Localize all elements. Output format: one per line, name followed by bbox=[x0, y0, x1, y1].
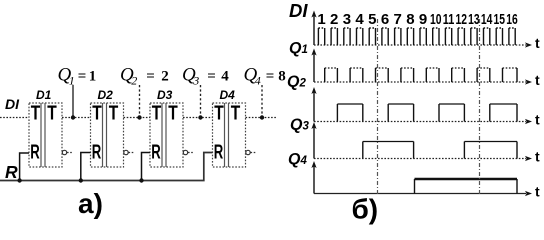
svg-text:t: t bbox=[535, 184, 540, 200]
flip-flop D4 (T flip-flop) bbox=[213, 88, 246, 167]
svg-text:T: T bbox=[168, 103, 178, 125]
time axis for DI bbox=[311, 11, 540, 52]
svg-text:12: 12 bbox=[455, 11, 467, 28]
svg-text:Q1: Q1 bbox=[289, 40, 308, 57]
svg-text:Q4: Q4 bbox=[288, 151, 307, 168]
svg-text:15: 15 bbox=[494, 11, 506, 28]
svg-text:DI: DI bbox=[5, 96, 20, 112]
svg-text:T: T bbox=[231, 103, 241, 125]
time axis for Q3 bbox=[311, 122, 540, 165]
D1 inverted output stub bbox=[67, 152, 73, 154]
flip-flop D3 (T flip-flop) bbox=[150, 88, 183, 167]
Q4 waveform pulse bbox=[414, 179, 416, 194]
svg-text:8: 8 bbox=[406, 11, 414, 28]
svg-text:Q2=2: Q2=2 bbox=[120, 65, 169, 88]
node Q3 junction bbox=[198, 115, 202, 119]
Q3 waveform pulses bbox=[363, 142, 517, 159]
svg-text:2: 2 bbox=[330, 11, 338, 28]
junction on R bus at x=80.8 bbox=[79, 178, 83, 182]
dash-dot reference line at t=479.5 bbox=[479, 19, 481, 196]
wire: Q2 output to next stage bbox=[124, 117, 151, 119]
svg-text:t: t bbox=[535, 72, 540, 88]
node Q2 junction bbox=[137, 115, 141, 119]
D2 inverted output bubble bbox=[124, 150, 128, 154]
svg-text:T: T bbox=[109, 103, 119, 125]
svg-text:D3: D3 bbox=[157, 88, 173, 102]
svg-text:t: t bbox=[535, 112, 540, 128]
time axis for Q1 bbox=[311, 49, 540, 89]
time axis for Q4 bbox=[311, 161, 540, 200]
svg-text:11: 11 bbox=[443, 11, 455, 28]
svg-text:а): а) bbox=[78, 188, 103, 219]
svg-text:D2: D2 bbox=[98, 88, 114, 102]
svg-text:7: 7 bbox=[394, 11, 402, 28]
svg-text:Q3: Q3 bbox=[290, 117, 309, 134]
svg-text:4: 4 bbox=[355, 11, 364, 28]
svg-text:Q2: Q2 bbox=[287, 74, 306, 91]
wire stub from node Q2 up to its label bbox=[139, 85, 141, 118]
svg-text:Q4=8: Q4=8 bbox=[244, 65, 286, 88]
dash-dot reference line at t=377.5 bbox=[377, 19, 379, 196]
D3 inverted output stub bbox=[188, 152, 194, 154]
wire: R bus to D1.R bbox=[20, 153, 29, 181]
flip-flop D2 (T flip-flop) bbox=[91, 88, 124, 167]
node Q4 junction bbox=[260, 115, 264, 119]
svg-text:1: 1 bbox=[317, 11, 325, 28]
svg-text:6: 6 bbox=[381, 11, 389, 28]
wire stub from node Q1 up to its label bbox=[72, 85, 74, 118]
svg-text:14: 14 bbox=[481, 11, 493, 28]
svg-text:R: R bbox=[151, 142, 161, 164]
svg-text:D1: D1 bbox=[36, 88, 52, 102]
svg-text:16: 16 bbox=[506, 11, 518, 28]
D2 inverted output stub bbox=[129, 152, 135, 154]
DI clock pulses 1-16 bbox=[318, 28, 515, 45]
svg-text:T: T bbox=[31, 103, 41, 125]
svg-text:Q3=4: Q3=4 bbox=[182, 65, 229, 88]
Q1 waveform pulses bbox=[325, 68, 517, 82]
svg-text:T: T bbox=[47, 103, 57, 125]
wire: Q4 output to next stage bbox=[246, 117, 278, 119]
time axis for Q2 bbox=[311, 87, 540, 128]
svg-text:13: 13 bbox=[468, 11, 480, 28]
svg-text:3: 3 bbox=[343, 11, 351, 28]
junction on R bus at x=141.5 bbox=[139, 178, 143, 182]
svg-text:DI: DI bbox=[289, 0, 308, 21]
wire: R bus bbox=[0, 153, 213, 181]
svg-text:9: 9 bbox=[419, 11, 427, 28]
junction on R bus at x=19.6 bbox=[17, 178, 21, 182]
svg-text:T: T bbox=[92, 103, 102, 125]
svg-text:R: R bbox=[92, 142, 102, 164]
wire: DI input to D1.T bbox=[0, 117, 29, 119]
svg-text:T: T bbox=[214, 103, 224, 125]
svg-text:R: R bbox=[30, 142, 40, 164]
flip-flop D1 (T flip-flop) bbox=[29, 88, 62, 167]
svg-text:R: R bbox=[214, 142, 224, 164]
svg-text:t: t bbox=[535, 149, 540, 165]
svg-text:Q1=1: Q1=1 bbox=[58, 65, 97, 88]
wire: Q1 output to next stage bbox=[62, 117, 91, 119]
node Q1 junction bbox=[71, 115, 75, 119]
svg-text:10: 10 bbox=[430, 11, 442, 28]
D1 inverted output bubble bbox=[62, 150, 66, 154]
wire: R bus to D3.R bbox=[142, 153, 151, 181]
D4 inverted output bubble bbox=[246, 150, 250, 154]
svg-text:R: R bbox=[5, 162, 18, 182]
svg-text:t: t bbox=[535, 35, 540, 51]
wire stub from node Q4 up to its label bbox=[261, 85, 263, 118]
wire: Q3 output to next stage bbox=[183, 117, 213, 119]
svg-text:б): б) bbox=[352, 194, 379, 225]
D4 inverted output stub bbox=[251, 152, 257, 154]
svg-text:T: T bbox=[152, 103, 162, 125]
Q2 waveform pulses bbox=[337, 104, 517, 122]
D3 inverted output bubble bbox=[183, 150, 187, 154]
svg-text:5: 5 bbox=[368, 11, 376, 28]
wire: R bus to D2.R bbox=[81, 153, 91, 181]
pulse numbers 1-16 bbox=[317, 11, 517, 28]
wire stub from node Q3 up to its label bbox=[200, 85, 202, 118]
svg-text:D4: D4 bbox=[220, 88, 236, 102]
